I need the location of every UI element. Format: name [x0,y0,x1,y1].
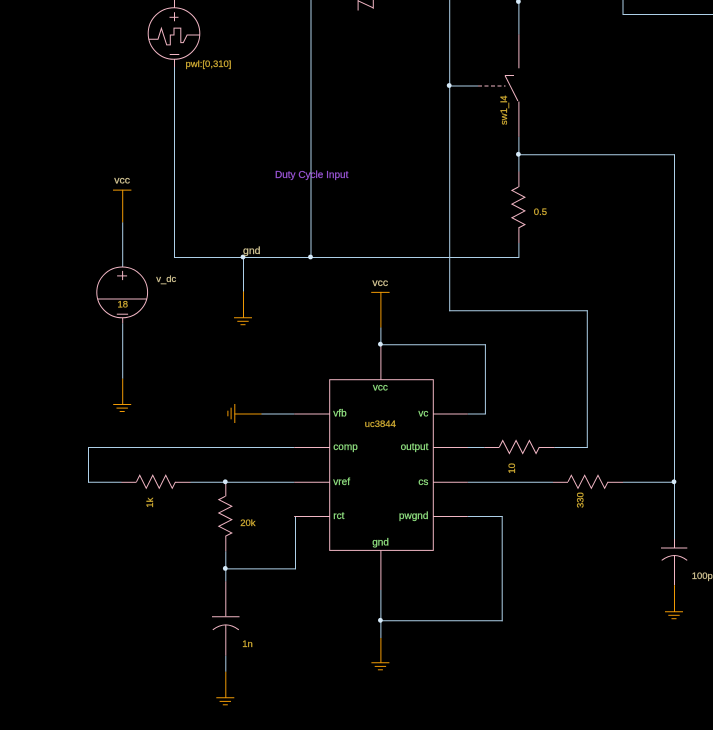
svg-text:10: 10 [507,463,518,474]
svg-text:1n: 1n [242,639,253,650]
svg-text:18: 18 [118,299,129,310]
svg-text:rct: rct [333,511,344,522]
svg-text:pwl:[0,310]: pwl:[0,310] [186,59,232,70]
svg-text:pwgnd: pwgnd [399,511,428,522]
svg-text:output: output [401,442,429,453]
svg-text:sw1_l4: sw1_l4 [499,95,510,125]
svg-text:vcc: vcc [373,383,388,394]
svg-text:Duty Cycle Input: Duty Cycle Input [275,170,349,181]
svg-text:v_dc: v_dc [156,274,176,285]
svg-text:330: 330 [576,492,587,508]
svg-text:vcc: vcc [114,174,130,186]
svg-text:vcc: vcc [372,277,388,289]
svg-text:vc: vc [418,408,428,419]
svg-text:cs: cs [418,477,428,488]
svg-text:gnd: gnd [243,245,261,257]
svg-text:vref: vref [333,477,350,488]
svg-text:0.5: 0.5 [534,207,547,218]
svg-text:comp: comp [333,442,358,453]
svg-text:vfb: vfb [333,408,347,419]
svg-text:20k: 20k [240,518,256,529]
svg-text:uc3844: uc3844 [365,419,396,430]
svg-text:gnd: gnd [372,537,389,548]
svg-text:100p: 100p [692,571,713,582]
svg-text:1k: 1k [145,497,156,507]
